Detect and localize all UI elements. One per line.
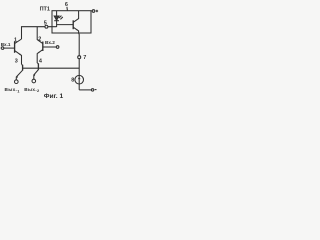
svg-text:1: 1 xyxy=(14,37,17,43)
svg-text:Вх.2: Вх.2 xyxy=(45,40,55,45)
svg-text:5: 5 xyxy=(44,21,47,27)
svg-text:4: 4 xyxy=(39,58,43,64)
svg-text:ПТ1: ПТ1 xyxy=(40,6,50,12)
svg-text:7: 7 xyxy=(83,55,86,61)
svg-text:Вых.2: Вых.2 xyxy=(24,87,40,93)
svg-text:8: 8 xyxy=(71,78,74,84)
svg-text:Фиг. 1: Фиг. 1 xyxy=(44,93,64,100)
svg-text:2: 2 xyxy=(38,37,41,43)
svg-text:3: 3 xyxy=(15,59,18,65)
svg-text:Вх.1: Вх.1 xyxy=(1,42,11,47)
svg-text:Вых.1: Вых.1 xyxy=(5,87,21,93)
svg-text:6: 6 xyxy=(65,2,68,8)
